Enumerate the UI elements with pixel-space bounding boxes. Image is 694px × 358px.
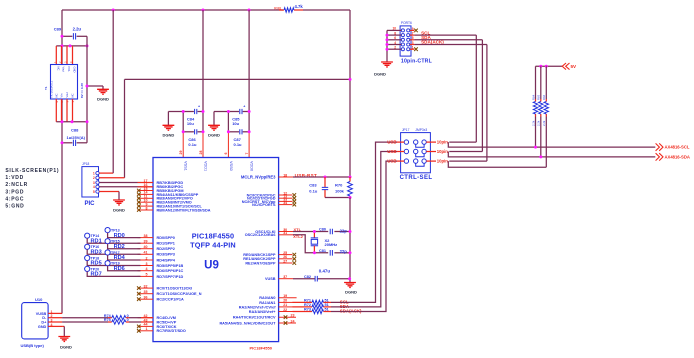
ground DGND PORT6: [374, 62, 393, 77]
svg-text:RA4/T0CKI/C1OUT/RCV: RA4/T0CKI/C1OUT/RCV: [233, 316, 276, 320]
port AX4816-SCL: [656, 143, 690, 150]
regulator T1 pin names top: [56, 67, 76, 73]
resistor RM8 leads: [279, 9, 303, 11]
node junction top rail x249: [248, 9, 251, 12]
wire RD0 net: [108, 233, 141, 238]
svg-text:1: 1: [93, 171, 95, 175]
svg-text:USB: USB: [387, 149, 396, 154]
regulator T1 pin numbers bottom: [55, 101, 75, 103]
test point TP20: [85, 266, 100, 271]
svg-text:31: 31: [283, 231, 287, 235]
svg-text:GND: GND: [73, 67, 77, 73]
ground DGND mcu: [344, 283, 357, 295]
svg-text:18: 18: [283, 173, 287, 177]
svg-text:34: 34: [283, 201, 287, 205]
svg-text:2: 2: [146, 256, 148, 260]
svg-text:TQFP 44-PIN: TQFP 44-PIN: [190, 240, 236, 249]
resistor R74: [104, 314, 129, 320]
svg-text:RD4: RD4: [114, 255, 126, 261]
svg-text:RC2/CCP1/P1A: RC2/CCP1/P1A: [157, 298, 184, 302]
svg-text:NC/ICPORTS: NC/ICPORTS: [252, 203, 276, 207]
svg-text:RD7: RD7: [91, 272, 102, 278]
svg-text:RA1/AN1: RA1/AN1: [259, 301, 275, 305]
wire JP18 pin2 NCLR: [99, 177, 124, 179]
label RD7: [91, 272, 102, 278]
svg-text:6: 6: [224, 153, 228, 155]
regulator T1 pin numbers top: [53, 61, 73, 63]
svg-text:0.1u: 0.1u: [309, 189, 318, 194]
ground DGND decoupling1: [163, 112, 175, 138]
svg-text:22: 22: [283, 308, 287, 312]
wire AX4816-SDA net: [448, 152, 655, 157]
svg-text:1: 1: [412, 46, 414, 50]
svg-text:RD7/SPP7/P1D: RD7/SPP7/P1D: [157, 275, 184, 279]
svg-text:RC5/D+/VP: RC5/D+/VP: [157, 320, 177, 324]
capacitor C85: [232, 105, 245, 127]
svg-text:D+: D+: [41, 320, 47, 324]
label SDA: [340, 304, 350, 309]
regulator U T1: [51, 65, 78, 100]
wire RD6 net: [108, 266, 141, 271]
regulator T1 top pins: [56, 46, 72, 65]
svg-text:T1: T1: [44, 86, 48, 90]
connector JP18 pins: [96, 171, 99, 193]
wire JP18 pin1 VDD: [99, 10, 113, 173]
connector JP17 box: [401, 133, 431, 173]
connector PORT6 pins: [401, 29, 409, 51]
svg-text:VSS1: VSS1: [184, 161, 188, 171]
wire SDA(ACK) net: [331, 161, 397, 311]
svg-text:DGND: DGND: [374, 72, 386, 77]
svg-text:7: 7: [412, 32, 414, 36]
wire vertical x87 regulator: [86, 36, 88, 143]
svg-text:NC: NC: [71, 94, 75, 98]
svg-text:RD3/SPP3: RD3/SPP3: [157, 253, 175, 257]
test point TP18: [85, 255, 100, 260]
wire VSS1 drop: [182, 112, 184, 158]
svg-text:Vout: Vout: [62, 67, 66, 73]
svg-text:10pin: 10pin: [437, 158, 449, 163]
label RD6: [114, 266, 125, 272]
svg-text:51: 51: [325, 303, 329, 307]
connector PORT6 left wires: [387, 27, 401, 50]
svg-text:R66: R66: [542, 94, 546, 100]
svg-text:RA3/AN3/Vref+: RA3/AN3/Vref+: [249, 310, 276, 314]
svg-text:MCLR_NVpp/RE3: MCLR_NVpp/RE3: [241, 174, 276, 179]
svg-text:USB: USB: [387, 139, 396, 144]
wire RD7 net: [87, 272, 140, 277]
wire PGC net: [99, 186, 153, 188]
svg-text:R65: R65: [537, 94, 541, 100]
svg-text:VDD0: VDD0: [250, 161, 254, 171]
svg-text:VDD1: VDD1: [203, 161, 207, 171]
svg-text:1: 1: [146, 327, 148, 331]
port AX4816-SDA: [656, 153, 690, 160]
svg-text:U10: U10: [35, 297, 43, 302]
svg-text:OSC2/CLKO/RA6: OSC2/CLKO/RA6: [245, 233, 276, 237]
capacitor C86: [188, 129, 197, 147]
wire decoupling2 top row: [214, 111, 249, 113]
node junctions decoupling1: [182, 110, 205, 133]
svg-text:100k: 100k: [335, 189, 345, 194]
regulator T1 refdes: [44, 80, 54, 98]
svg-text:R64: R64: [531, 94, 535, 100]
node junctions crystal: [313, 230, 352, 254]
svg-text:2: 2: [394, 46, 396, 50]
svg-text:RD5/SPP5/P1B: RD5/SPP5/P1B: [157, 264, 184, 268]
node junction pullup SDA: [539, 155, 542, 158]
svg-text:7: 7: [245, 153, 249, 155]
label RD0: [114, 233, 125, 239]
svg-text:RA0/AN0: RA0/AN0: [259, 296, 275, 300]
test point TP17: [105, 250, 120, 255]
svg-text:RD1/SPP1: RD1/SPP1: [157, 242, 175, 246]
capacitor C80: [319, 227, 347, 234]
svg-text:PORT6: PORT6: [401, 21, 412, 25]
svg-text:POL: POL: [67, 67, 71, 73]
label U9 top pin names: [184, 161, 254, 171]
wire pullup column R64: [535, 66, 537, 147]
svg-text:4:PGC: 4:PGC: [5, 196, 24, 202]
capacitor C87: [234, 129, 243, 147]
wire OSC1 net: [293, 231, 350, 233]
wire PORT6 SDAACK: [414, 44, 487, 46]
connector U10 pins: [36, 310, 62, 329]
resistor R70: [335, 177, 352, 198]
label RD4: [114, 255, 126, 261]
label RD5: [91, 261, 102, 267]
regulator T1 pin names bottom: [54, 92, 74, 98]
node junction top rail x203: [202, 9, 205, 12]
wire JP18 pin5 gnd: [99, 192, 119, 201]
svg-text:38: 38: [144, 234, 148, 238]
svg-text:RC0/T1OSO/T13CKI: RC0/T1OSO/T13CKI: [157, 287, 193, 291]
wire SDAACK branch: [448, 161, 546, 167]
wire SDAACK to PORT6: [449, 45, 487, 162]
svg-text:5:GND: 5:GND: [5, 203, 24, 209]
resistor R66: [542, 94, 548, 126]
svg-text:35: 35: [144, 290, 148, 294]
ground DGND regulator: [86, 85, 109, 102]
svg-text:DGND: DGND: [113, 208, 125, 213]
svg-text:USB(B type): USB(B type): [21, 343, 45, 348]
svg-text:R75: R75: [104, 318, 111, 322]
wire decoupling2 bottom row: [228, 131, 249, 133]
svg-text:C81: C81: [319, 249, 326, 253]
svg-text:5: 5: [146, 273, 148, 277]
svg-text:JMP3x3: JMP3x3: [415, 128, 427, 132]
svg-text:Vout: Vout: [65, 92, 69, 98]
svg-text:28: 28: [199, 151, 203, 155]
resistor R72: [293, 303, 332, 309]
wire AX4816-SCL net: [448, 142, 655, 147]
label PIC: [84, 201, 95, 207]
svg-text:TK71633ASCL: TK71633ASCL: [50, 80, 54, 98]
svg-text:2.2u: 2.2u: [73, 27, 82, 32]
svg-text:USB: USB: [387, 158, 396, 163]
wire SCL net: [331, 142, 397, 302]
svg-text:0.1u: 0.1u: [188, 142, 197, 147]
wire RD5 net: [87, 261, 140, 266]
svg-text:4: 4: [146, 267, 148, 271]
svg-text:SILK-SCREEN(P1): SILK-SCREEN(P1): [5, 168, 59, 174]
svg-text:0.1u: 0.1u: [234, 142, 243, 147]
svg-text:DGND: DGND: [163, 132, 175, 137]
power 5V symbol: [562, 63, 577, 70]
wire VDD0 riser: [248, 10, 250, 158]
op-amp U9 left pins: [137, 179, 211, 333]
svg-text:RC6/TX/CK: RC6/TX/CK: [157, 325, 177, 329]
svg-text:19: 19: [283, 294, 287, 298]
svg-text:37: 37: [283, 275, 287, 279]
resistor R75: [104, 318, 129, 324]
svg-text:5: 5: [412, 36, 414, 40]
wire VUSB net: [293, 278, 350, 280]
wire MCLR rail y79: [125, 79, 351, 177]
wire decoupling1 bottom row: [183, 131, 203, 133]
svg-text:RD0: RD0: [114, 233, 125, 239]
svg-text:RD2: RD2: [114, 244, 125, 250]
node junctions USB-RST: [324, 176, 352, 179]
label RD1: [91, 238, 102, 244]
label JP17: [402, 128, 427, 132]
svg-text:CTRL-SEL: CTRL-SEL: [400, 175, 433, 181]
resistor R71: [293, 298, 332, 304]
label RD2: [114, 244, 125, 250]
node junction reg bottom rail: [61, 120, 89, 123]
svg-text:VUSB: VUSB: [265, 277, 276, 281]
svg-text:RD5: RD5: [91, 261, 102, 267]
svg-text:RC1/T1OSI/CCP2/UOE_N: RC1/T1OSI/CCP2/UOE_N: [157, 292, 202, 296]
test point TP14: [85, 233, 100, 238]
svg-text:21: 21: [283, 303, 287, 307]
svg-text:2:NCLR: 2:NCLR: [5, 182, 28, 188]
connector PORT6 right pins: [410, 27, 444, 51]
svg-text:RD6/SPP6/P1C: RD6/SPP6/P1C: [157, 269, 184, 273]
wire VBUS vertical x62: [61, 10, 63, 313]
svg-text:4: 4: [93, 185, 95, 189]
svg-text:RA2/AN2/Vref-/CVref: RA2/AN2/Vref-/CVref: [239, 305, 276, 309]
test point TP15: [105, 239, 120, 244]
svg-text:51: 51: [325, 298, 329, 302]
node junction reg top rail: [61, 44, 89, 47]
wire SDA net: [331, 152, 397, 307]
test point TP13: [105, 228, 120, 233]
crystal X2: [311, 232, 337, 253]
wire D- net: [62, 317, 153, 319]
wire MCLR vertical x350 upper: [349, 10, 351, 177]
svg-text:C89: C89: [54, 27, 62, 32]
svg-text:RD3: RD3: [91, 250, 102, 256]
svg-text:+: +: [243, 105, 245, 109]
label U9 titles: [190, 231, 236, 271]
svg-text:RD1: RD1: [91, 238, 102, 244]
svg-text:RD0/SPP0: RD0/SPP0: [157, 236, 175, 240]
svg-text:NC: NC: [54, 94, 58, 98]
svg-text:DGND: DGND: [60, 344, 72, 349]
svg-text:DGND: DGND: [97, 97, 109, 102]
svg-text:10u: 10u: [232, 121, 239, 126]
svg-text:VSS0: VSS0: [229, 161, 233, 171]
capacitor C89 wires: [62, 35, 87, 37]
svg-text:RE2/AN7/OESPP: RE2/AN7/OESPP: [245, 261, 276, 265]
label USB B type: [21, 343, 45, 348]
label 10pin-CTRL: [401, 58, 433, 64]
label SDA(ACK): [340, 308, 362, 313]
label XTL: [293, 227, 304, 239]
node junction x350 y79: [349, 78, 352, 81]
svg-text:3: 3: [412, 41, 414, 45]
connector JP17 stubs: [387, 139, 448, 163]
svg-text:10u: 10u: [187, 121, 194, 126]
svg-text:JP18: JP18: [82, 162, 89, 166]
svg-text:RM8: RM8: [274, 7, 281, 11]
svg-text:4.7k: 4.7k: [295, 4, 304, 9]
svg-text:22p: 22p: [340, 229, 348, 234]
test point TP16: [85, 244, 100, 249]
svg-text:JP17: JP17: [402, 128, 410, 132]
svg-text:20: 20: [283, 299, 287, 303]
svg-text:24: 24: [291, 319, 295, 323]
svg-text:27: 27: [283, 259, 287, 263]
svg-text:10pin: 10pin: [437, 149, 449, 154]
svg-text:44: 44: [144, 323, 148, 327]
node junction MCLR bottom: [349, 196, 352, 199]
op-amp U9 box: [153, 158, 279, 342]
connector JP18 box: [82, 162, 99, 197]
wire SCL to PORT6: [449, 35, 476, 142]
svg-text:RB0/AN12/INT0/FLT0/SDI/SDA: RB0/AN12/INT0/FLT0/SDI/SDA: [157, 208, 211, 212]
svg-text:0: 0: [127, 318, 129, 322]
svg-text:RD4/SPP4: RD4/SPP4: [157, 258, 176, 262]
resistor RM8: [274, 4, 303, 12]
svg-text:C80: C80: [319, 227, 326, 231]
connector JP17 pins: [404, 140, 426, 166]
node junction C88 left: [61, 141, 64, 144]
svg-text:R72: R72: [304, 303, 311, 307]
ground DGND U10: [58, 337, 72, 350]
svg-text:RD6: RD6: [114, 266, 125, 272]
svg-text:36: 36: [144, 296, 148, 300]
capacitor C88 wires: [62, 142, 87, 144]
svg-text:C88: C88: [71, 128, 79, 133]
svg-text:6V => 3.3V: 6V => 3.3V: [80, 83, 84, 98]
node junction VUSB gnd: [348, 277, 351, 280]
resistor R73: [293, 308, 332, 314]
svg-text:8: 8: [146, 206, 148, 210]
svg-text:5V: 5V: [571, 64, 578, 69]
svg-text:AX4816-SDA: AX4816-SDA: [665, 155, 690, 160]
svg-text:3:PGD: 3:PGD: [5, 189, 24, 195]
svg-text:10pin: 10pin: [437, 139, 449, 144]
ground DGND decoupling2: [208, 112, 220, 138]
svg-text:0.47u: 0.47u: [319, 268, 331, 273]
svg-text:C83: C83: [309, 183, 317, 188]
label SCL: [340, 299, 349, 304]
resistor R65: [537, 94, 543, 126]
wire VDD1 riser: [202, 10, 204, 158]
wire pullup column R66: [545, 66, 547, 167]
svg-text:6: 6: [394, 36, 396, 40]
node junctions 5V rail: [539, 65, 548, 68]
svg-text:2.2k: 2.2k: [531, 120, 535, 126]
svg-text:40: 40: [144, 245, 148, 249]
svg-text:+: +: [198, 105, 200, 109]
wire MCLR bottom rail: [325, 197, 350, 199]
svg-text:Vin: Vin: [60, 93, 64, 97]
wire regulator bottom rail: [56, 121, 87, 123]
capacitor C84: [187, 105, 200, 127]
svg-text:DGND: DGND: [345, 290, 357, 295]
regulator T1 note 6V to 3.3V: [80, 83, 84, 98]
svg-text:2.2k: 2.2k: [542, 120, 546, 126]
svg-text:DGND: DGND: [208, 132, 220, 137]
svg-text:PIC18F4550: PIC18F4550: [250, 346, 273, 351]
wire SDA to PORT6: [449, 40, 482, 152]
svg-text:R71: R71: [304, 298, 311, 302]
svg-text:1:VDD: 1:VDD: [5, 175, 24, 181]
label RD3: [91, 250, 102, 256]
node junctions decoupling2: [227, 110, 251, 133]
label U9 top pin numbers: [179, 151, 249, 155]
capacitor C81: [319, 249, 347, 256]
ground DGND JP18: [113, 200, 125, 213]
connector JP18 pin numbers: [93, 171, 95, 193]
wire pullup column R65: [540, 66, 542, 157]
svg-text:10: 10: [392, 27, 396, 31]
wire RD3 net: [87, 249, 140, 254]
label USB-RST: [295, 173, 318, 178]
capacitor C83: [309, 177, 328, 198]
svg-text:RD2/SPP2: RD2/SPP2: [157, 247, 175, 251]
wire U10 gnd: [62, 326, 64, 336]
svg-text:1u/25V(A): 1u/25V(A): [67, 135, 86, 140]
capacitor C89: [54, 27, 82, 40]
capacitor C82: [304, 268, 330, 281]
regulator T1 bottom pins: [56, 99, 72, 122]
label CTRL-SEL: [400, 175, 433, 181]
svg-text:2.2k: 2.2k: [537, 120, 541, 126]
svg-text:PIC: PIC: [84, 201, 95, 207]
wire PORT6 SCL: [414, 34, 476, 36]
svg-text:GND: GND: [38, 325, 47, 329]
node junction top rail x113: [112, 9, 115, 12]
wire PORT6 gnd bus: [386, 30, 389, 62]
svg-text:22p: 22p: [340, 249, 348, 254]
node junction pullup SCL: [534, 146, 537, 149]
svg-text:R70: R70: [335, 182, 343, 187]
wire RD1 net: [87, 238, 140, 243]
svg-text:RA5/AN4/SS_N/HLVDIN/C2OUT: RA5/AN4/SS_N/HLVDIN/C2OUT: [219, 321, 276, 325]
svg-text:41: 41: [144, 251, 148, 255]
wire 5V rail: [536, 65, 563, 67]
wire PGD net: [99, 182, 153, 184]
capacitor C88: [67, 128, 86, 147]
svg-text:23: 23: [291, 314, 295, 318]
svg-text:2: 2: [93, 176, 95, 180]
wire RD4 net: [108, 255, 141, 260]
silk-screen note text: [5, 168, 59, 210]
svg-text:5: 5: [93, 190, 95, 194]
svg-text:4: 4: [394, 41, 396, 45]
connector PORT6 box: [400, 21, 412, 56]
svg-text:51: 51: [325, 308, 329, 312]
wire USB-RST net: [293, 176, 350, 178]
wire VDD top rail: [62, 9, 350, 11]
svg-text:3: 3: [146, 262, 148, 266]
wire RD2 net: [108, 244, 141, 249]
label PIC18F4550 red: [250, 346, 273, 351]
